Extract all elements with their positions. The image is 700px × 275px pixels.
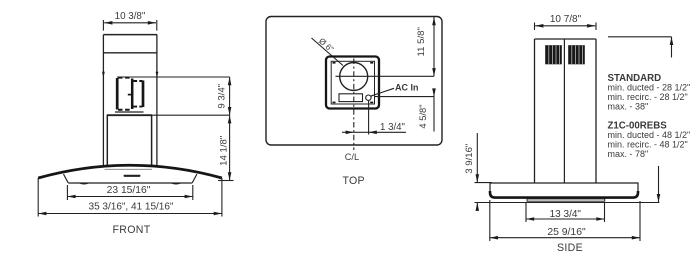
svg-text:min. ducted - 28 1/2": min. ducted - 28 1/2"	[608, 82, 691, 92]
dim 3 9/16 line	[476, 133, 478, 182]
extension line glass tip right	[221, 178, 223, 217]
dim 1 3/4 right arrow	[369, 131, 406, 133]
svg-text:3 9/16": 3 9/16"	[464, 144, 475, 174]
extension base bottom right	[475, 202, 660, 204]
filter panel	[527, 199, 605, 201]
svg-text:14 1/8": 14 1/8"	[219, 136, 230, 166]
svg-text:C/L: C/L	[345, 152, 359, 162]
lower duct section left edge	[106, 115, 108, 165]
dim 1 3/4 left arrow	[342, 131, 354, 133]
lower duct section right edge	[151, 115, 153, 165]
dim line 23 15/16	[67, 196, 192, 198]
extension 13 3/4 right	[604, 203, 606, 222]
logo bar	[124, 175, 141, 177]
extension line right	[156, 20, 158, 31]
svg-text:4 5/8": 4 5/8"	[417, 104, 428, 128]
extension 25 9/16 left	[489, 200, 491, 241]
dim line 25 9/16	[490, 237, 640, 239]
extension line at y115 to 9-3/4 dim	[107, 114, 152, 116]
dim 11 5/8	[433, 17, 435, 76]
canopy body	[64, 174, 197, 183]
dim line 10 3/8	[104, 22, 156, 24]
extension line canopy bottom right	[218, 180, 234, 182]
light left	[80, 183, 89, 184]
tick arrow right chimney edge	[156, 72, 159, 78]
svg-text:10 7/8": 10 7/8"	[550, 14, 582, 25]
height ref bottom arrow	[658, 166, 660, 202]
canopy base outline	[490, 183, 638, 198]
dim 1 3/4 middle segment	[354, 131, 369, 133]
vent grille right	[568, 45, 585, 64]
svg-text:9 3/4": 9 3/4"	[217, 84, 228, 109]
svg-text:10 3/8": 10 3/8"	[115, 11, 146, 22]
chimney left edge	[534, 39, 536, 183]
chimney mount square	[326, 57, 379, 109]
svg-text:23 15/16": 23 15/16"	[107, 185, 151, 196]
extension line left	[102, 20, 104, 31]
extension line blower top to 9-3/4 dim	[117, 76, 230, 78]
blower bottom plate	[115, 111, 144, 113]
mount plate inner	[331, 61, 374, 104]
canopy glass arc	[38, 165, 222, 178]
svg-text:max. - 78": max. - 78"	[608, 149, 649, 159]
chimney seam	[563, 39, 565, 183]
svg-text:min. ducted - 48 1/2": min. ducted - 48 1/2"	[608, 130, 691, 140]
svg-text:1 3/4": 1 3/4"	[380, 122, 406, 133]
chimney right edge	[595, 39, 597, 183]
extension AC inlet down	[368, 101, 370, 135]
chimney top edge	[103, 34, 157, 36]
svg-text:AC In: AC In	[395, 82, 419, 92]
svg-text:13 3/4": 13 3/4"	[550, 209, 582, 220]
svg-text:25 9/16": 25 9/16"	[547, 227, 586, 238]
circle crosshair horizontal / extension to 11-5/8 dim	[336, 75, 435, 77]
chimney top edge	[535, 38, 597, 40]
AC In leader	[371, 88, 395, 96]
tick arrow left chimney edge	[102, 72, 105, 78]
svg-text:min. recirc. - 48 1/2": min. recirc. - 48 1/2"	[608, 140, 688, 150]
blower housing outline	[117, 78, 143, 110]
extension right	[595, 23, 597, 31]
duct leader line	[312, 38, 344, 66]
extension left	[534, 23, 536, 31]
svg-text:SIDE: SIDE	[557, 242, 583, 254]
extension 13 3/4 left	[525, 203, 527, 222]
vent grille left	[545, 45, 562, 64]
svg-text:35 3/16", 41 15/16": 35 3/16", 41 15/16"	[89, 202, 174, 213]
height ref top line	[608, 36, 672, 38]
dim 9 3/4	[229, 77, 231, 115]
extension base top left	[475, 182, 493, 184]
svg-text:FRONT: FRONT	[113, 224, 151, 236]
svg-text:min. recirc. - 28 1/2": min. recirc. - 28 1/2"	[608, 92, 688, 102]
dim line 35 3/16, 41 15/16	[38, 213, 222, 215]
svg-text:Ø 6": Ø 6"	[317, 36, 336, 54]
chimney left edge	[102, 35, 104, 166]
duct circle	[340, 63, 368, 91]
chimney right edge	[156, 35, 158, 166]
dim line 13 3/4	[526, 218, 605, 220]
extension line glass tip left	[37, 178, 39, 217]
dim line 10 7/8	[535, 25, 595, 27]
canopy base bottom thick	[490, 191, 638, 198]
spec text STANDARD	[608, 73, 691, 159]
extension 23-dim left	[66, 185, 68, 200]
svg-text:11 5/8": 11 5/8"	[416, 27, 427, 56]
canopy outline (top)	[266, 17, 442, 146]
svg-text:max. - 38": max. - 38"	[608, 101, 649, 111]
extension 23-dim right	[192, 185, 194, 200]
dim 4 5/8 line	[433, 97, 435, 132]
chimney telescopic joint	[103, 52, 157, 54]
height ref top arrow	[671, 37, 673, 58]
junction bracket	[339, 94, 363, 102]
AC inlet circle	[366, 95, 371, 100]
dim 4 5/8 arrow	[433, 89, 435, 97]
svg-text:TOP: TOP	[342, 175, 365, 187]
light right	[172, 183, 181, 184]
dim 14 1/8	[229, 115, 231, 180]
extension 25 9/16 right	[639, 201, 641, 241]
extension line AC level	[375, 96, 434, 98]
body top edge behind glass	[105, 168, 153, 170]
centerline vertical dashed	[353, 59, 355, 151]
